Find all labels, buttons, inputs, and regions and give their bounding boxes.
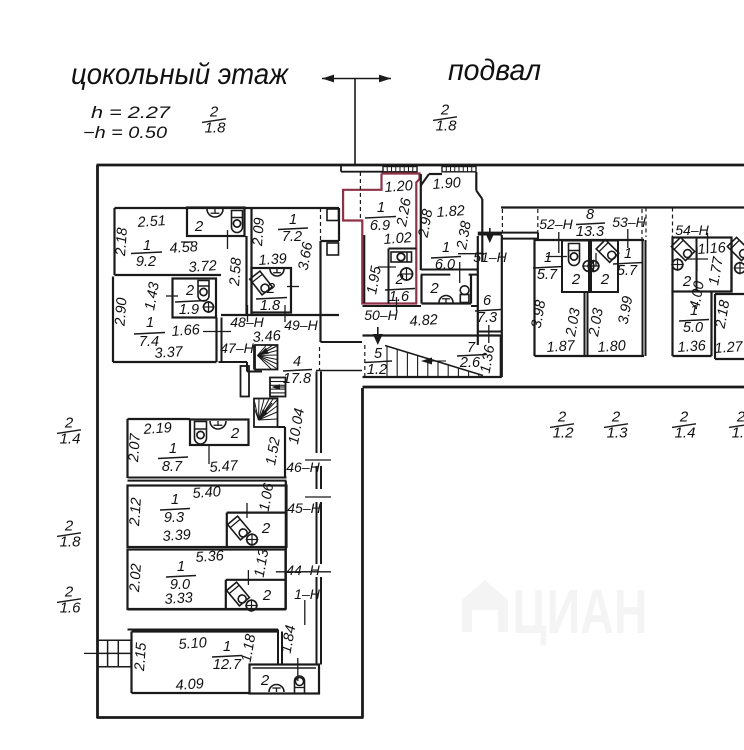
svg-text:1: 1: [223, 639, 231, 655]
wall band between 9.0 and 12.7: [128, 609, 286, 611]
svg-text:2.12: 2.12: [127, 497, 145, 527]
bathroom H right edge walls: [730, 240, 732, 292]
outer wall right side of left wing: [361, 388, 364, 718]
bathroom D toilet: [460, 286, 469, 295]
svg-text:1.8: 1.8: [60, 534, 82, 551]
svg-text:46–Н: 46–Н: [286, 459, 320, 475]
wall block 502-538: [478, 232, 538, 234]
room 12.7 walls: [132, 630, 279, 632]
svg-text:7: 7: [467, 340, 476, 356]
stairwell dashed left edge: [364, 345, 366, 376]
red bathroom walls (2/1.6): [389, 248, 417, 250]
bathroom F shower: [596, 240, 619, 263]
corridor wall right of 7.4: [221, 318, 223, 363]
svg-text:2: 2: [440, 102, 450, 119]
svg-text:1.4: 1.4: [675, 425, 696, 442]
bathroom I walls (8.7): [190, 420, 249, 446]
svg-text:1: 1: [177, 559, 185, 575]
svg-text:4.09: 4.09: [175, 676, 204, 694]
stairwell bottom wall: [363, 376, 502, 378]
svg-text:h = 2.27: h = 2.27: [91, 104, 171, 122]
svg-text:1.8: 1.8: [436, 118, 458, 135]
room 1/6.0 bottom wall: [421, 269, 477, 271]
room 1/7.2 left wall: [250, 208, 252, 268]
svg-text:2: 2: [64, 518, 74, 535]
svg-text:7.2: 7.2: [282, 229, 302, 245]
radiator niche lower on wall x339: [327, 243, 339, 255]
svg-text:4: 4: [293, 354, 301, 370]
outer wall top: [97, 164, 744, 167]
svg-text:−h = 0.50: −h = 0.50: [83, 124, 168, 142]
svg-text:1: 1: [146, 315, 154, 331]
wall y207 right wing: [501, 206, 744, 208]
bathroom D tick: [459, 262, 461, 283]
svg-text:2: 2: [262, 587, 272, 604]
svg-text:2: 2: [64, 584, 74, 601]
svg-text:1: 1: [377, 200, 385, 216]
red flat inner wall: [363, 235, 365, 303]
svg-text:2: 2: [611, 409, 621, 426]
door tick 1.66: [203, 331, 231, 333]
svg-text:3.39: 3.39: [162, 527, 191, 545]
bathroom J sink circle: [247, 534, 258, 545]
section double arrow: [322, 78, 391, 80]
axis mark 2/1.6 left: [57, 584, 81, 617]
window w2 on top wall: [442, 167, 476, 172]
svg-text:3.33: 3.33: [164, 590, 193, 608]
svg-text:2: 2: [557, 409, 567, 426]
svg-text:44–Н: 44–Н: [286, 562, 320, 578]
svg-text:2: 2: [679, 409, 689, 426]
svg-text:5: 5: [374, 346, 383, 362]
room 9.0 walls: [128, 550, 286, 610]
room 1/7.4 walls: [112, 277, 114, 363]
wall between row1 block and corridor: [221, 314, 339, 316]
bathroom G shower: [671, 237, 695, 261]
svg-text:7.3: 7.3: [477, 310, 497, 326]
bathroom A door tick: [227, 230, 229, 249]
svg-text:53–Н: 53–Н: [612, 214, 646, 230]
stair wall column: [241, 366, 250, 397]
axis mark 2/1.8 right header: [433, 102, 457, 135]
svg-text:1.82: 1.82: [436, 203, 465, 221]
room 1.27 walls: [715, 293, 744, 295]
bathroom L sink semicircle: [269, 685, 284, 693]
axis mark 2/1.3 bottom: [604, 409, 628, 442]
stair enclosure left wall: [253, 345, 255, 370]
svg-text:1.16: 1.16: [697, 240, 727, 258]
svg-text:2: 2: [209, 104, 219, 121]
svg-text:1.9: 1.9: [179, 302, 199, 318]
svg-text:2: 2: [230, 425, 240, 442]
room 6/7.3 top wall: [478, 234, 502, 236]
bathroom D walls (below 6.0): [420, 275, 422, 304]
svg-text:2: 2: [571, 271, 581, 288]
corridor 50-Н bottom wall: [363, 334, 502, 336]
bathroom K shower: [227, 582, 250, 606]
svg-text:2: 2: [394, 272, 403, 288]
bathroom A sink semicircle: [207, 209, 223, 217]
room 8.7 bottom wall: [128, 477, 287, 479]
bathroom I sink semicircle: [210, 421, 226, 429]
rooms 52/53 right wall: [642, 240, 644, 356]
svg-text:1.6: 1.6: [60, 600, 82, 617]
bathroom J shower: [228, 516, 251, 540]
svg-text:1.5: 1.5: [732, 425, 744, 442]
svg-text:1.66: 1.66: [171, 322, 201, 340]
room 1.87 left wall: [533, 240, 535, 356]
bathroom E tick cross: [546, 256, 567, 258]
svg-text:1.8: 1.8: [260, 298, 280, 314]
svg-text:8: 8: [586, 207, 594, 223]
wall step under top boundary at red tab: [340, 165, 342, 172]
bathroom L heater: [295, 676, 305, 693]
svg-text:2.15: 2.15: [132, 641, 150, 672]
bathroom K tick: [247, 570, 249, 585]
svg-text:2.90: 2.90: [112, 297, 130, 327]
axis mark 2/1.4 bottom: [672, 409, 696, 442]
red bathroom toilet: [391, 252, 412, 262]
room 6/7.3 right wall: [501, 235, 503, 377]
svg-text:2.58: 2.58: [227, 257, 245, 287]
bathroom B sink circle: [204, 302, 214, 312]
room 9.3 walls: [128, 486, 287, 548]
svg-text:цокольный этаж: цокольный этаж: [71, 58, 289, 91]
bathroom B left tick: [166, 295, 178, 297]
svg-text:2.09: 2.09: [250, 217, 268, 247]
svg-text:2: 2: [185, 283, 194, 299]
svg-text:2.19: 2.19: [142, 420, 172, 438]
dashed shaft lines: [501, 209, 503, 232]
svg-text:2.07: 2.07: [126, 432, 144, 463]
svg-text:1: 1: [289, 212, 297, 228]
svg-text:1.87: 1.87: [546, 338, 576, 356]
corridor 10.04 left wall: [285, 481, 287, 609]
axis mark 2/1.4 left: [57, 415, 81, 448]
svg-text:1.2: 1.2: [553, 425, 575, 442]
axis mark 2/1.2 bottom: [550, 409, 574, 442]
bathroom C door tick: [287, 286, 299, 288]
corridor 2.58 wall: [245, 236, 247, 315]
svg-text:1: 1: [143, 238, 151, 254]
svg-text:8.7: 8.7: [162, 459, 183, 475]
svg-text:подвал: подвал: [448, 54, 541, 87]
svg-text:5.40: 5.40: [192, 484, 221, 502]
corridor right double wall: [316, 372, 318, 454]
red flat niche dashed line: [359, 172, 361, 220]
bathroom C walls (2/1.8): [252, 268, 292, 313]
bathroom J walls (9.3): [226, 513, 228, 547]
svg-text:2: 2: [261, 520, 271, 537]
red flat outline: [343, 174, 419, 304]
red bathroom sink circle: [401, 268, 413, 280]
stairwell right wall: [500, 336, 502, 378]
stair winder lower: [254, 399, 278, 428]
bathroom I toilet: [195, 422, 207, 445]
bathroom E sink circle: [583, 261, 594, 272]
svg-text:13.3: 13.3: [576, 224, 604, 240]
svg-text:5.10: 5.10: [178, 635, 207, 653]
room 2.19/8.7 walls: [128, 418, 191, 420]
bathroom G sink circle: [672, 259, 683, 270]
svg-text:6: 6: [483, 293, 492, 309]
svg-text:2: 2: [600, 271, 610, 288]
svg-text:5.47: 5.47: [209, 458, 239, 476]
svg-text:1.39: 1.39: [258, 251, 287, 269]
svg-text:2: 2: [266, 281, 275, 297]
wall top of rooms row1: [115, 207, 340, 209]
svg-text:1.6: 1.6: [389, 289, 410, 305]
svg-text:3.46: 3.46: [252, 328, 282, 346]
svg-text:2.18: 2.18: [113, 227, 131, 257]
bathroom A toilet: [232, 211, 243, 233]
svg-text:12.7: 12.7: [213, 657, 242, 673]
svg-text:9.2: 9.2: [136, 254, 156, 270]
room 1/6.0 walls: [420, 174, 422, 270]
room block right boundary with step: [338, 208, 340, 241]
outer wall bottom of right wing: [363, 386, 744, 389]
axis mark 2/1.8 left: [57, 518, 81, 551]
radiator niche upper on wall x339: [327, 209, 339, 221]
svg-text:4.82: 4.82: [409, 312, 438, 330]
top wall of 52/53 rooms: [534, 239, 645, 241]
section line down to plan: [354, 79, 356, 166]
svg-text:50–Н: 50–Н: [364, 307, 398, 323]
svg-text:3.37: 3.37: [154, 344, 184, 362]
red bathroom ticks: [378, 266, 396, 268]
svg-text:5.7: 5.7: [537, 267, 558, 283]
svg-text:2: 2: [194, 218, 204, 235]
svg-text:6.0: 6.0: [435, 257, 455, 273]
bathroom J tick: [246, 503, 248, 518]
bathroom C sink semicircle: [270, 269, 284, 276]
bathroom L walls (12.7): [250, 665, 320, 694]
svg-text:2: 2: [736, 409, 744, 426]
svg-text:2: 2: [64, 415, 74, 432]
ventilation arrow in 7.3: [489, 228, 491, 234]
svg-text:17.8: 17.8: [283, 371, 311, 387]
outer wall left: [96, 165, 99, 718]
svg-text:2.51: 2.51: [136, 213, 166, 231]
bathroom I tick: [208, 445, 210, 464]
svg-text:1: 1: [169, 441, 177, 457]
rooms 52/53 bottom wall: [535, 355, 645, 357]
room 12.7 right upper wall: [277, 630, 279, 665]
svg-text:47–Н: 47–Н: [220, 340, 254, 356]
stair flight middle: [270, 378, 286, 397]
room 1/9.2 walls: [113, 208, 115, 275]
svg-text:ЦИАН: ЦИАН: [513, 578, 648, 647]
svg-text:1.90: 1.90: [432, 175, 461, 193]
outer wall bottom of left wing: [97, 716, 364, 719]
svg-text:1: 1: [544, 250, 552, 266]
stairwell flight: [385, 346, 483, 376]
bathroom B walls (2/1.9): [173, 279, 217, 318]
svg-text:54–Н: 54–Н: [675, 222, 709, 238]
svg-text:9.3: 9.3: [164, 510, 184, 526]
svg-text:1.20: 1.20: [384, 178, 413, 196]
window w1 on top wall: [383, 167, 417, 172]
svg-text:2: 2: [260, 672, 270, 689]
svg-text:1.3: 1.3: [607, 425, 629, 442]
bathroom K walls (9.0): [225, 580, 227, 609]
bathroom C shower: [250, 271, 273, 295]
stair winder upper: [255, 345, 278, 370]
entry hatch grid: [98, 639, 132, 641]
svg-text:5.7: 5.7: [617, 263, 638, 279]
dashed line at x320: [320, 208, 322, 241]
svg-text:1.2: 1.2: [367, 362, 387, 378]
svg-text:2.02: 2.02: [127, 563, 145, 593]
corridor band below 17.8: [316, 370, 362, 372]
svg-text:1.80: 1.80: [597, 338, 626, 356]
svg-text:1: 1: [442, 240, 450, 256]
bathroom D sink semicircle: [439, 296, 453, 303]
svg-text:2: 2: [429, 280, 439, 297]
bathroom H sink circle: [735, 263, 744, 274]
svg-text:1: 1: [690, 303, 698, 319]
room 6/7.3 bottom wall: [478, 331, 502, 333]
svg-text:1.27: 1.27: [714, 339, 744, 357]
svg-text:1.02: 1.02: [383, 230, 412, 248]
svg-text:52–Н: 52–Н: [539, 216, 573, 232]
room 5.0 walls: [671, 292, 673, 357]
entry hatch tail line: [84, 652, 98, 654]
axis mark 2/1.5 bottom edge: [729, 409, 744, 442]
bathroom F sink circle: [588, 261, 599, 272]
bathroom B toilet: [198, 281, 209, 302]
bathroom G walls (54-Н): [673, 238, 732, 292]
bathroom K sink circle: [246, 600, 257, 611]
bathroom F walls (53-Н): [591, 241, 618, 293]
svg-text:5.0: 5.0: [683, 320, 703, 336]
svg-text:5.36: 5.36: [195, 548, 225, 566]
bathroom E walls (52-Н): [562, 241, 589, 293]
ventilation arrow at stairwell: [377, 327, 379, 336]
bathroom E toilet: [569, 244, 580, 266]
svg-text:1.4: 1.4: [60, 431, 81, 448]
bathroom H shower: [727, 237, 744, 261]
corridor 17.8 bottom wall: [321, 341, 363, 343]
bathroom G tick cross: [687, 258, 708, 260]
watermark: [462, 578, 648, 647]
room 8.7 right wall: [284, 427, 286, 478]
corridor 50-Н top wall: [363, 305, 422, 307]
axis mark 2/1.8 left header: [202, 104, 226, 137]
svg-text:1: 1: [624, 246, 632, 262]
wall right of bathroom D: [477, 236, 479, 345]
wall between rooms 1.87 and 1.80: [584, 292, 586, 356]
svg-text:1.8: 1.8: [205, 120, 227, 137]
svg-text:1: 1: [171, 492, 179, 508]
bathroom A walls (top, rooms 2): [187, 208, 245, 237]
svg-text:49–Н: 49–Н: [284, 317, 318, 333]
svg-text:1.36: 1.36: [677, 338, 707, 356]
svg-text:3.72: 3.72: [188, 258, 217, 276]
